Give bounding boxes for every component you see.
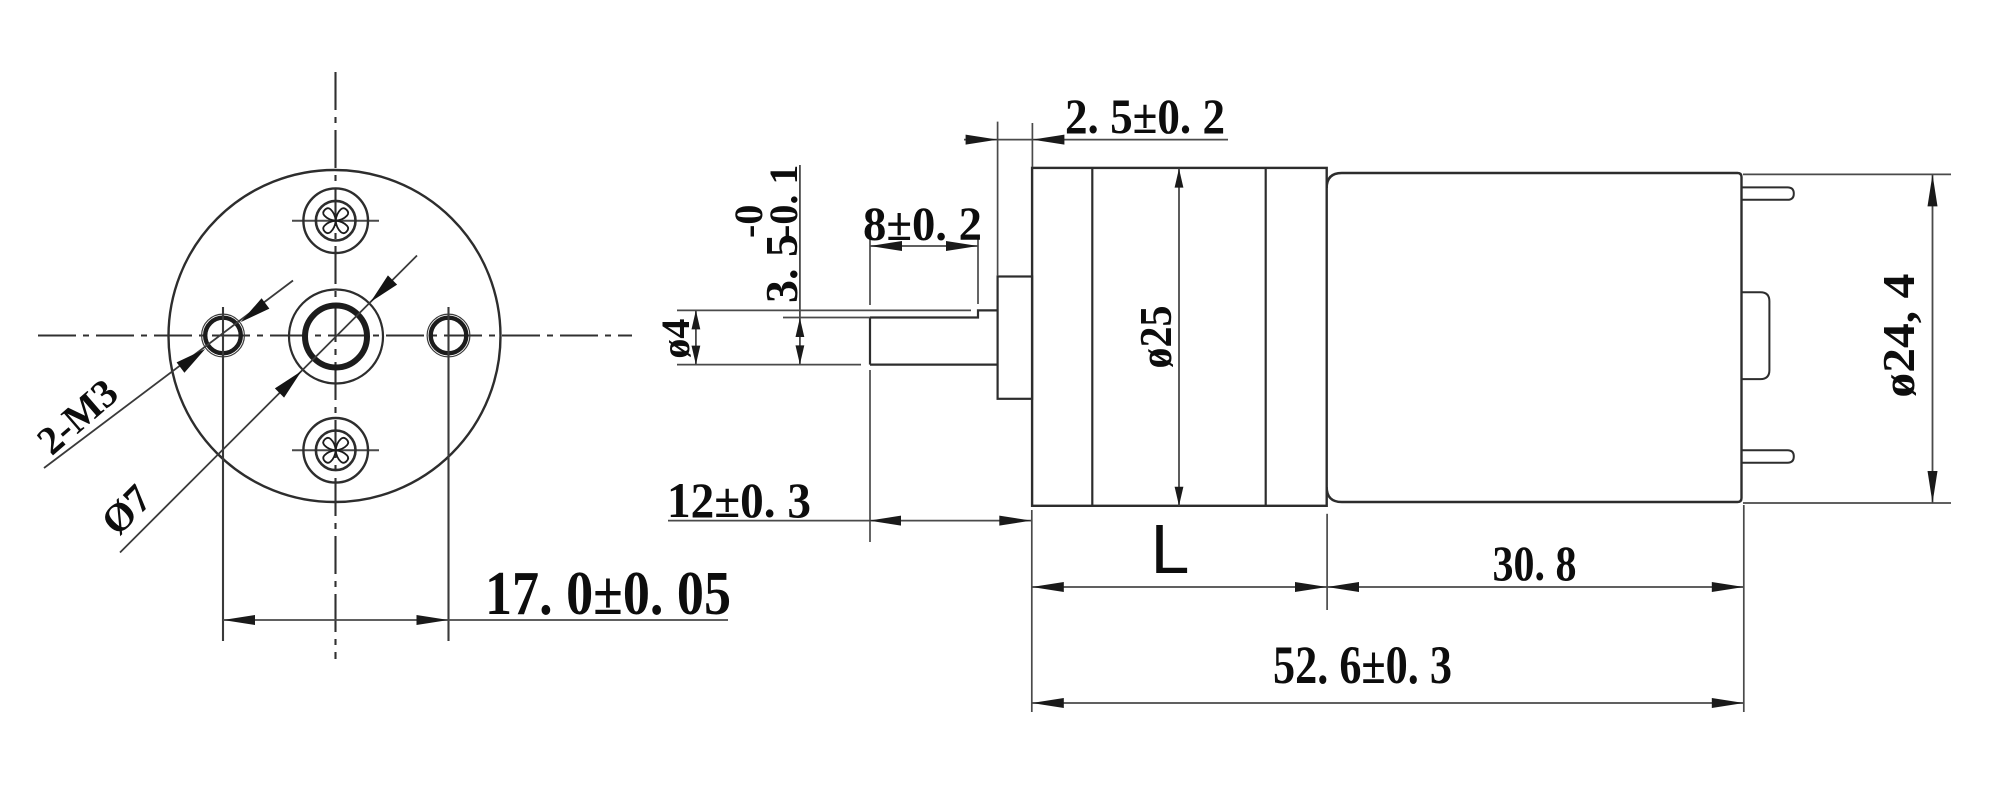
svg-text:2. 5±0. 2: 2. 5±0. 2 xyxy=(1065,88,1225,144)
svg-text:L: L xyxy=(1151,510,1190,588)
svg-text:17. 0±0. 05: 17. 0±0. 05 xyxy=(485,560,731,628)
svg-text:30. 8: 30. 8 xyxy=(1493,535,1577,591)
svg-text:ø4: ø4 xyxy=(653,319,698,359)
svg-text:ø24, 4: ø24, 4 xyxy=(1873,274,1924,398)
svg-text:52. 6±0. 3: 52. 6±0. 3 xyxy=(1273,635,1452,695)
svg-text:12±0. 3: 12±0. 3 xyxy=(667,472,811,528)
svg-text:8±0. 2: 8±0. 2 xyxy=(863,198,982,251)
svg-text:ø25: ø25 xyxy=(1130,306,1181,369)
svg-text:3. 5: 3. 5 xyxy=(756,234,807,303)
svg-text:-0. 1: -0. 1 xyxy=(761,165,806,238)
